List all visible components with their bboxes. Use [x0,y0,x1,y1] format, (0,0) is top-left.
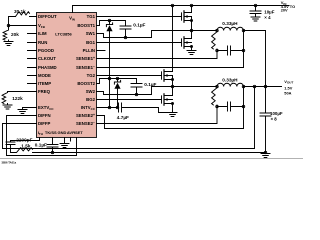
svg-text:SW1: SW1 [86,31,96,36]
svg-text:20V: 20V [281,8,288,13]
svg-text:BOOST2: BOOST2 [77,81,95,86]
svg-text:4.7µF: 4.7µF [117,115,129,120]
svg-text:PLLIN: PLLIN [83,48,95,53]
svg-text:× 8: × 8 [271,117,278,122]
svg-text:DIFFP: DIFFP [38,121,51,126]
svg-text:TK/SS: TK/SS [45,130,57,135]
svg-text:× 4: × 4 [264,15,271,20]
svg-text:3856 TA01a: 3856 TA01a [2,161,17,165]
svg-text:RUN: RUN [38,40,47,45]
svg-text:100µF: 100µF [270,111,283,116]
svg-text:20k: 20k [11,32,19,37]
svg-text:BG1: BG1 [86,40,95,45]
svg-text:SENSE1−: SENSE1− [76,65,95,70]
svg-text:CLKOUT: CLKOUT [38,56,56,61]
svg-text:122k: 122k [12,96,23,101]
svg-text:2200pF: 2200pF [16,137,32,142]
svg-text:TG1: TG1 [87,14,96,19]
svg-text:BOOST1: BOOST1 [77,23,95,28]
svg-text:0.1µF: 0.1µF [35,143,47,148]
svg-text:0.33µH: 0.33µH [222,78,238,83]
svg-text:30.1k: 30.1k [14,9,26,14]
svg-text:ISET: ISET [74,130,83,135]
svg-text:SENSE2+: SENSE2+ [76,113,95,118]
svg-text:TG2: TG2 [87,73,96,78]
svg-text:LTC3856: LTC3856 [55,31,72,36]
svg-text:ITEMP: ITEMP [38,81,51,86]
svg-text:BG2: BG2 [86,97,95,102]
svg-text:SENSE1+: SENSE1+ [76,56,95,61]
svg-text:GND: GND [58,130,67,135]
svg-text:0.1µF: 0.1µF [144,82,156,87]
svg-text:PGOOD: PGOOD [38,48,54,53]
svg-text:SENSE2−: SENSE2− [76,121,95,126]
svg-text:1.5k: 1.5k [21,143,31,148]
svg-text:50A: 50A [284,91,291,96]
svg-text:SW2: SW2 [86,89,96,94]
svg-text:ILIM: ILIM [38,31,47,36]
svg-text:10µF: 10µF [264,9,274,14]
svg-text:MODE: MODE [38,73,51,78]
svg-text:0.1µF: 0.1µF [133,23,145,28]
svg-text:DIFFOUT: DIFFOUT [38,14,57,19]
svg-text:0.33µH: 0.33µH [222,21,238,26]
svg-text:FREQ: FREQ [38,89,51,94]
svg-text:DIFFN: DIFFN [38,113,51,118]
svg-text:PHASMD: PHASMD [38,65,57,70]
